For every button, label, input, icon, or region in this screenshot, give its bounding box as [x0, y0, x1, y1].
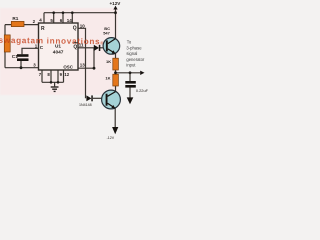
- svg-text:R: R: [41, 26, 45, 32]
- svg-text:C1: C1: [12, 54, 18, 60]
- node +12V rail: [114, 11, 117, 14]
- svg-text:0.22uF: 0.22uF: [136, 88, 149, 93]
- node output: [114, 71, 117, 74]
- svg-text:input: input: [126, 63, 136, 68]
- svg-text:3-phase: 3-phase: [126, 45, 142, 50]
- wire between 1K resistors: [115, 70, 117, 74]
- node pin14 rail: [71, 11, 74, 14]
- wire cap drop: [129, 73, 131, 81]
- svg-text:swagatam innovations®: swagatam innovations®: [0, 36, 104, 46]
- pink schematic area: [0, 8, 118, 95]
- svg-text:10: 10: [80, 24, 86, 29]
- wire +12V drop / Q1 collector: [115, 9, 117, 39]
- arrow output right: [140, 71, 144, 75]
- Qbar overline: [74, 42, 78, 44]
- resistor 1K upper: [113, 58, 119, 70]
- node pin13: [93, 67, 96, 70]
- wire Q2 emitter down: [114, 108, 116, 127]
- wire pin 1 to C1: [22, 48, 39, 54]
- svg-text:4047: 4047: [53, 50, 64, 56]
- arrow -12V down: [112, 127, 118, 134]
- capacitor 0.22uF: [125, 81, 136, 88]
- node cap: [129, 71, 132, 74]
- wire riser pin6: [62, 13, 64, 23]
- wire output node: [116, 72, 141, 74]
- transistor Q1 BC547: [103, 38, 120, 55]
- wire C1 bottom lead: [20, 61, 22, 68]
- svg-text:generator: generator: [126, 57, 145, 62]
- svg-text:11: 11: [79, 43, 84, 48]
- node C1 pin3: [20, 66, 23, 69]
- resistor R1: [11, 21, 24, 26]
- resistor R2 vertical: [4, 35, 10, 52]
- wire pin 3 bottom: [5, 67, 39, 69]
- svg-text:14: 14: [67, 18, 73, 23]
- arrow +12V up: [113, 6, 117, 10]
- svg-text:1N4148: 1N4148: [79, 103, 92, 107]
- wire cap bottom: [129, 88, 131, 98]
- wire diode to Q1 base: [100, 47, 106, 49]
- svg-text:U1: U1: [55, 44, 61, 49]
- svg-text:OSC: OSC: [63, 65, 73, 70]
- wire riser pin5: [53, 13, 55, 23]
- node dots: [20, 11, 132, 83]
- node pin6 rail: [62, 11, 65, 14]
- arrow cap down: [127, 97, 134, 104]
- wire top +12V rail: [44, 12, 116, 14]
- wire IC bottom stub 8: [50, 70, 52, 82]
- background paper: [0, 0, 150, 140]
- diode D1 upper: [94, 45, 101, 51]
- label To 3-phase output: [126, 40, 145, 68]
- wire left rail: [4, 25, 6, 68]
- wire ground bus: [42, 81, 64, 83]
- wire Q1 emitter down: [115, 54, 117, 59]
- wire pin 11: [78, 47, 94, 49]
- resistor 1K lower: [113, 74, 119, 86]
- wire riser pin14: [71, 13, 73, 23]
- IC U1 4047: [39, 23, 79, 70]
- svg-text:signal: signal: [126, 51, 137, 56]
- svg-text:12: 12: [64, 72, 69, 77]
- labels: [12, 1, 149, 140]
- node bus 9: [57, 81, 60, 84]
- wire riser pin4: [43, 13, 45, 23]
- svg-text:Q: Q: [73, 25, 77, 31]
- svg-text:C: C: [40, 45, 44, 50]
- svg-text:13: 13: [80, 63, 86, 68]
- wire ground stem: [54, 82, 56, 86]
- capacitor C1: [17, 54, 29, 61]
- svg-text:To: To: [127, 40, 132, 45]
- wire pin 10 to vertical: [78, 28, 86, 98]
- wire lower diode to Q2 base: [93, 97, 106, 99]
- svg-text:1K: 1K: [106, 59, 111, 64]
- wire IC bottom stub 7: [41, 70, 43, 82]
- svg-text:Q: Q: [73, 44, 77, 50]
- svg-text:1K: 1K: [105, 75, 110, 80]
- svg-text:+12V: +12V: [110, 1, 122, 6]
- transistor Q2: [102, 90, 121, 109]
- wire pin 13: [78, 48, 94, 68]
- wire IC bottom stub 12: [63, 70, 65, 82]
- svg-text:R1: R1: [12, 16, 18, 21]
- node pin5 rail: [52, 11, 55, 14]
- wire IC bottom stub 9: [57, 70, 59, 82]
- svg-text:547: 547: [103, 30, 110, 35]
- node bus 8: [50, 81, 53, 84]
- wire R1 row / pin 2: [5, 24, 39, 26]
- ground: [51, 87, 59, 91]
- svg-text:-12V: -12V: [107, 136, 115, 140]
- wire lower 1K to Q2: [115, 86, 117, 92]
- diode 1N4148: [86, 95, 92, 101]
